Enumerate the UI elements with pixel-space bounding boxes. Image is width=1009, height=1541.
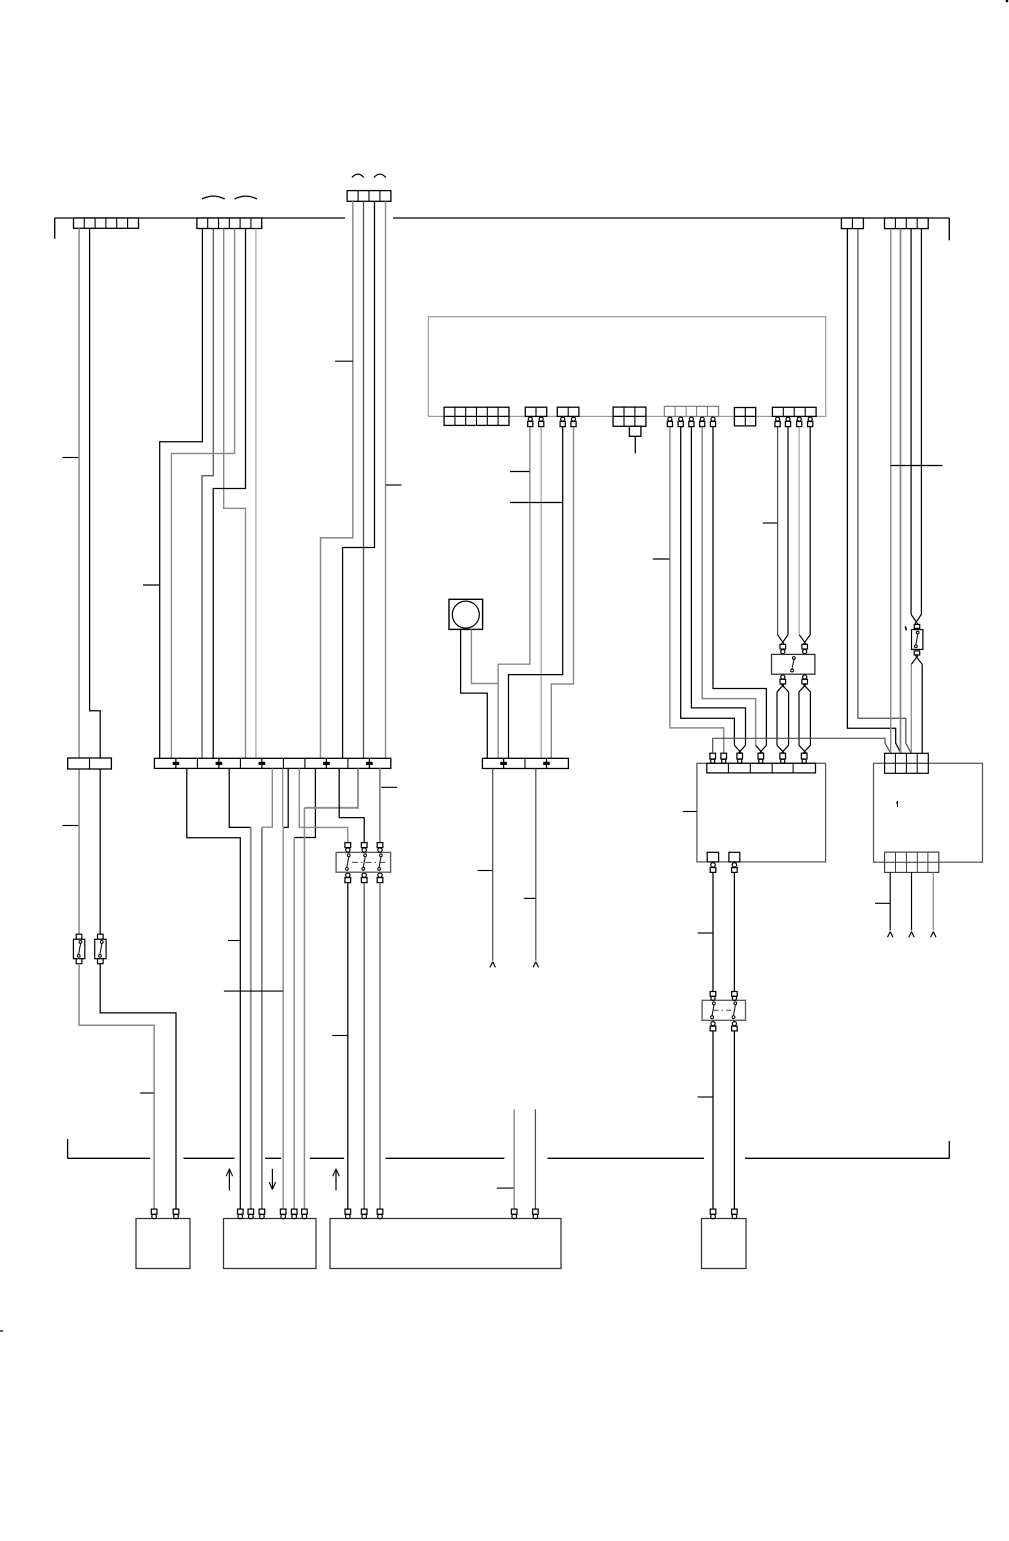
- relay K1 switch 3: [378, 854, 383, 870]
- pin C1: [560, 417, 565, 427]
- relay K1 top pin 1: [345, 843, 351, 853]
- leader tick at block E wire1: [653, 558, 670, 560]
- relay K1 switch 1: [346, 854, 351, 870]
- relay K2 bottom pin 1: [710, 1022, 716, 1031]
- wire TS2 out gray 2 with open arrow: [533, 769, 538, 968]
- wire CN5-1 gray to P2 grid cell1: [890, 229, 892, 754]
- board P1 top connector row: [707, 763, 816, 773]
- pin G4: [808, 417, 813, 427]
- wire from above into board P3 pin5: [534, 1109, 536, 1209]
- wire P2 bottom 3 gray with open arrow: [931, 872, 936, 937]
- pin E2: [678, 417, 683, 427]
- wire TS1-f jog left to board P2 pin5: [294, 768, 315, 1209]
- board P3b (bottom wide): [330, 1219, 561, 1269]
- board P1 top pin 5: [780, 753, 786, 763]
- wire pair G3/G4 down: [799, 427, 810, 635]
- wire pair G1/G2 down: [778, 427, 788, 635]
- inline connector switch S2 on black wire: [95, 934, 106, 964]
- wire gray from S1 jog right to bottom board P1 pin1: [79, 964, 154, 1209]
- leader tick at CN3 wires: [335, 360, 353, 362]
- leader tick at arrow wire x493: [478, 870, 493, 872]
- wire J1 gray branch to node X: [471, 629, 498, 683]
- connector block A (2x6 grid) on main board: [444, 407, 509, 425]
- pin G1: [775, 417, 780, 427]
- board P2b pin 4: [280, 1209, 286, 1219]
- relay K2 box (2-pole switch): [702, 1000, 745, 1020]
- board P1 bottom pin 2: [732, 863, 738, 873]
- page corner mark top right: [1006, 0, 1008, 2]
- connector CN2 (6-pin): [197, 218, 262, 229]
- leader tick at board P1 left edge: [683, 811, 697, 813]
- wire bottom bus segment 4: [310, 1157, 344, 1159]
- pin B2: [539, 417, 544, 427]
- wire pair CN5-3/4 down to inline switch S3: [911, 229, 921, 615]
- headphone jack J2 box: [772, 654, 815, 674]
- relay K1 box (3-pole switch): [336, 852, 391, 872]
- twisted-wire arc over CN3 pins 3-4: [374, 174, 386, 177]
- wire TS1-d black jog left to board P2 pin4: [283, 768, 288, 1209]
- shield cross above S3: [911, 614, 921, 624]
- wire top harness bus right segment: [393, 217, 949, 219]
- leader tick at block G wire1: [763, 522, 778, 524]
- board P3b pin 4: [511, 1209, 517, 1219]
- wire E2 staircase to chevron: [681, 427, 735, 745]
- connector CN4 (2-pin, top right): [841, 218, 863, 229]
- wire CN2-6 light gray straight: [255, 229, 257, 759]
- board P3b pin 2: [361, 1209, 367, 1219]
- connector block C (2-pin): [557, 407, 579, 416]
- shield cross above jack right: [799, 635, 810, 645]
- wire CN4-1 black jog to P2 grid cell2: [847, 229, 901, 754]
- wire pair below jack left: [777, 692, 789, 746]
- flow arrow up at x=336: [333, 1169, 339, 1191]
- wire bottom bus left riser: [67, 1139, 69, 1158]
- jack switch lever: [791, 657, 796, 672]
- wire CN3-4 gray straight: [385, 201, 387, 758]
- wire TS1-j thick gray to relay K1 pin3: [379, 768, 381, 842]
- relay K1 top pin 2: [361, 843, 367, 853]
- wire from above into board P3 pin4: [513, 1109, 515, 1209]
- wire TS2 out gray with open arrow (to CRT): [490, 769, 495, 968]
- leader tick across CN5 wires: [891, 465, 943, 467]
- leader tick long across P2b wires: [224, 990, 283, 992]
- leader tick right of CN3 wire4: [386, 484, 402, 486]
- wire E3 staircase to chevron: [691, 427, 745, 745]
- board P1 bottom connector cells: [707, 852, 740, 862]
- pin E1: [667, 417, 672, 427]
- wire TS1-e stub to leader: [282, 768, 284, 827]
- junction terminal strip TS2: [482, 758, 568, 768]
- pin G2: [785, 417, 790, 427]
- connector CN5 (4-pin, top right): [885, 218, 929, 229]
- flow arrow down at x=272: [269, 1169, 275, 1190]
- board P2b pin 5: [291, 1209, 297, 1219]
- relay K2 top pin 1: [710, 992, 716, 1001]
- wire bottom bus right riser: [948, 1141, 950, 1158]
- wire K2 pin2 to board P4 pin2: [733, 1031, 735, 1209]
- board P2 top connector grid (2x4): [885, 753, 929, 773]
- wire CN2-3 gray jog right: [224, 229, 246, 759]
- wire TS1-g jog left to board P2 pin6: [304, 768, 358, 1209]
- sensor J1 (circle in square): [449, 599, 483, 629]
- splice mark on TS2 left: [500, 759, 507, 768]
- pin E3: [689, 417, 694, 427]
- leader tick at right edge lower: [497, 1187, 514, 1189]
- chevron pair into P1 pin3: [734, 745, 745, 753]
- board P2 bottom connector grid (2x5): [885, 852, 939, 872]
- wire P1 bottom pin2 to relay K2: [733, 872, 735, 991]
- splice mark on TS2 right: [543, 759, 550, 768]
- leader tick at K2 wire lower: [698, 1096, 713, 1098]
- wire pair below S3 into P2 grid: [911, 664, 922, 753]
- board P2b pin 1: [238, 1209, 244, 1219]
- leader tick at wire x154: [140, 1092, 154, 1094]
- relay K2 switch 2: [732, 1002, 737, 1019]
- wire CN1 pin2 (black) with jog right: [90, 228, 101, 934]
- shield cross below jack left: [777, 684, 789, 692]
- flow arrow up at x=229: [226, 1169, 232, 1191]
- connector CN3 (4-pin, raised): [347, 191, 391, 202]
- wire block C pin2 gray jog to TS2 cell4: [551, 427, 573, 758]
- board P1 bottom pin 1: [710, 863, 716, 873]
- twisted-wire arc over CN3 pins 1-2: [352, 174, 364, 177]
- leader tick at left pair lower: [63, 825, 79, 827]
- board P3b pin 3: [377, 1209, 383, 1219]
- board P1 top pin 2: [721, 753, 727, 763]
- wire P2 bottom 1 with open arrow: [888, 872, 893, 937]
- board P2b pin 2: [248, 1209, 254, 1219]
- wire E4 gray staircase to chevron: [702, 427, 755, 745]
- wire TS1-h gray jog right to relay K1 pin1: [299, 768, 348, 842]
- wire TS1-a black jog right to board P2 pin1: [187, 768, 241, 1209]
- shield cross below jack right: [799, 684, 810, 692]
- board P3b pin 1: [345, 1209, 351, 1219]
- wire top harness bus left segment: [55, 217, 345, 219]
- wire K2 pin1 to board P4 pin1: [712, 1031, 714, 1209]
- connector block F (2x2 grid): [734, 408, 755, 426]
- wire relay K1 pin3 to board P3 pin3: [379, 883, 381, 1210]
- wire E5 staircase to chevron: [713, 427, 766, 745]
- splice mark on TS1 at x=218.9: [216, 759, 223, 768]
- pin E4: [700, 417, 705, 427]
- wire block C pin1 black jog to TS2 cell2: [509, 427, 563, 758]
- wire bottom bus segment 6: [548, 1157, 705, 1159]
- pin C2: [571, 417, 576, 427]
- leader tick at P2 bottom wire: [875, 902, 890, 904]
- shield cross above jack left: [778, 635, 788, 645]
- board P1 top pin 4: [758, 753, 764, 763]
- board P3b pin 5: [533, 1209, 539, 1219]
- leader tick at wire x240: [228, 940, 240, 942]
- board P4b pin 1: [710, 1209, 716, 1219]
- connector block G (4-pin): [772, 407, 816, 416]
- board P2b pin 6: [302, 1209, 308, 1219]
- jack bottom pin right: [802, 675, 808, 684]
- tiny mark near S3: [904, 626, 907, 630]
- wire stub from block D tail: [634, 436, 636, 453]
- connector block E (5-pin, gray): [664, 406, 718, 416]
- leader tick at K1 wire1: [332, 1035, 347, 1037]
- wire TS1-c gray jog left to board P2 pin3: [262, 768, 272, 1209]
- jumper wire P1 pin1 to board P2 grid: [713, 738, 891, 753]
- wire pair below jack right: [799, 692, 810, 746]
- connector strip (2-cell) on left pair: [68, 758, 112, 769]
- leader tick at K2 wire upper: [698, 932, 713, 934]
- connector block B (2-pin): [525, 407, 546, 416]
- wire CN4-2 gray jog to P2 grid cell3: [858, 229, 912, 754]
- wire CN2-2 dark jog left: [202, 229, 213, 759]
- wire bottom bus segment 2: [184, 1157, 235, 1159]
- relay K1 bottom pin 1: [345, 873, 351, 883]
- board P2 outline: [874, 763, 983, 862]
- wire J1 black to TS2 cell1: [461, 629, 488, 758]
- chevron pair into P1 pin5: [777, 745, 789, 753]
- relay K1 linkage dash-dot line: [352, 861, 385, 863]
- chevron pair into P1 pin6: [799, 745, 810, 753]
- splice mark on TS1 at x=175.9: [173, 759, 180, 768]
- twisted-wire arc over CN2 pins 1-3: [202, 196, 225, 199]
- splice mark on TS1 at x=369.4: [366, 759, 373, 768]
- relay K1 bottom pin 2: [361, 873, 367, 883]
- wire bottom bus segment 7: [745, 1157, 949, 1159]
- wire TS1-i black jog right to relay K1 pin2: [339, 768, 364, 842]
- relay K1 top pin 3: [377, 843, 383, 853]
- wire block B pin2 gray to TS2 cell3: [540, 427, 542, 758]
- board P4b (bottom right): [702, 1219, 747, 1269]
- relay K2 top pin 2: [732, 992, 738, 1001]
- junction terminal strip TS1: [154, 758, 390, 768]
- main board outline (top): [428, 317, 825, 417]
- connector CN1 (6-pin, top left): [74, 218, 139, 228]
- splice mark on TS1 at x=261.9: [259, 759, 266, 768]
- wire black from S2 jog right to bottom board P1 pin2: [100, 964, 176, 1209]
- board P1b pin 2: [173, 1209, 179, 1219]
- splice mark on TS1 at x=326.4: [323, 759, 330, 768]
- relay K2 bottom pin 2: [732, 1022, 738, 1031]
- wire CN3-1 gray jog left: [321, 201, 353, 758]
- leader tick at arrow wire x536: [524, 897, 536, 899]
- relay K1 bottom pin 3: [377, 873, 383, 883]
- wire CN1 pin1 (gray) down to inline connector S1: [78, 228, 80, 934]
- wire E1 gray staircase to P1 pin2: [670, 427, 724, 753]
- wire CN2-4 gray jog left: [171, 229, 234, 759]
- board P2 internal mark: [896, 801, 897, 807]
- wire block B pin1 to node X down to TS2 cell1: [498, 427, 530, 758]
- jack top pin left: [780, 644, 786, 653]
- leader tick at wire x160: [143, 584, 159, 586]
- leader tick at block C wire: [510, 502, 562, 504]
- relay K2 switch 1: [711, 1002, 716, 1019]
- connector block D (2x3 grid with tail cell): [613, 407, 646, 436]
- wire bottom bus segment 3: [265, 1157, 281, 1159]
- twisted-wire arc over CN2 pins 4-6: [235, 196, 257, 199]
- edge mark far left: [0, 1330, 3, 1332]
- board P2b (bottom middle-left): [224, 1219, 317, 1269]
- relay K2 linkage dash-dot line: [714, 1009, 734, 1011]
- wire top bus right end bracket: [948, 218, 950, 240]
- jack bottom pin left: [780, 675, 786, 684]
- wire bottom bus segment 5: [386, 1157, 505, 1159]
- wire CN3-3 black jog left: [343, 201, 375, 758]
- jack top pin right: [802, 644, 808, 653]
- board P1 top pin 1: [710, 753, 716, 763]
- board P1 outline: [697, 763, 826, 862]
- wire relay K1 pin2 to board P3 pin2: [363, 883, 365, 1210]
- pin B1: [528, 417, 533, 427]
- wire CN3-2 gray straight: [363, 201, 365, 758]
- leader tick at block B wire: [510, 471, 530, 473]
- wire CN5-2 gray to P2 grid cell2: [900, 229, 902, 754]
- relay K1 switch 2: [362, 854, 367, 870]
- wire bottom bus segment 1: [68, 1157, 151, 1159]
- chevron pair into P1 pin4: [756, 745, 767, 753]
- board P1 top pin 6: [801, 753, 807, 763]
- wire TS1-b jog right to board P2 pin2: [229, 768, 251, 1209]
- board P1b (bottom left): [136, 1219, 190, 1269]
- wire CN2-1 black jog left: [160, 229, 203, 759]
- board P1 top pin 3: [737, 753, 743, 763]
- pin G3: [797, 417, 802, 427]
- wire top bus left end bracket: [54, 218, 56, 239]
- leader tick at TS1 right end: [381, 786, 397, 788]
- wire relay K1 pin1 to board P3 pin1: [347, 883, 349, 1210]
- wire P2 bottom 2 with open arrow: [909, 872, 914, 937]
- shield cross below S3: [911, 655, 922, 664]
- wire P1 bottom pin1 to relay K2: [712, 872, 714, 991]
- wire CN2-5 black jog left: [213, 229, 245, 759]
- leader tick at CN1 wire: [63, 457, 79, 459]
- inline connector switch S1 on gray wire: [73, 934, 84, 964]
- board P4b pin 2: [732, 1209, 738, 1219]
- board P2b pin 3: [259, 1209, 265, 1219]
- board P1b pin 1: [151, 1209, 157, 1219]
- pin E5: [710, 417, 715, 427]
- inline switch S3 on CN5 pair: [912, 624, 923, 655]
